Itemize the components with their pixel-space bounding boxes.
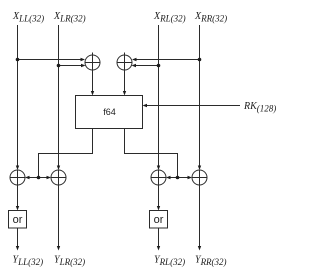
arrowhead into or-box right [157,206,160,211]
wire junction to XOR3 [29,177,39,179]
XOR gate X6 lower far-right [192,170,207,185]
arrowhead into XOR1 lower [81,64,86,67]
svg-text:XRR(32): XRR(32) [194,11,227,24]
wire XOR5 to or-box right [158,185,160,207]
XOR gate X5 lower mid-right [151,170,166,185]
wire RK input [147,105,241,107]
svg-text:YRL(32): YRL(32) [154,255,185,268]
svg-text:XLR(32): XLR(32) [53,11,86,24]
wire f64 left output routing [39,129,93,178]
svg-text:or: or [154,214,164,226]
svg-text:YRR(32): YRR(32) [195,255,227,268]
wire lower-right horizontal (X_RL to XOR2) [136,65,159,67]
arrowhead XOR1 into f64 [91,91,94,96]
wire XOR4 to output [58,185,60,247]
wire f64 right output routing [125,129,178,178]
wire lower-left horizontal (X_LR to XOR1) [59,65,82,67]
arrowhead into XOR3 right [25,176,30,179]
arrowhead into XOR5 right [166,176,171,179]
arrowhead output Y_LR [57,246,60,251]
arrowhead XOR2 into f64 [123,91,126,96]
svg-text:XRL(32): XRL(32) [153,11,186,24]
wire X_LR vertical line [58,25,60,166]
svg-text:YLR(32): YLR(32) [54,255,85,268]
arrowhead into XOR2 upper [132,58,137,61]
svg-text:XLL(32): XLL(32) [12,11,44,24]
arrowhead RK into f64 [143,104,148,107]
wire XOR1 to f64 [92,70,94,92]
wire junction to XOR6 [178,177,189,179]
arrowhead into XOR2 lower [132,64,137,67]
wire X_RL vertical line [158,25,160,166]
arrowhead into XOR6 left [188,176,193,179]
arrowhead into XOR5 top [157,166,160,171]
wire X_LL vertical line [17,25,19,166]
XOR gate X2 top-right [117,53,132,71]
svg-text:RK(128): RK(128) [243,101,276,114]
arrowhead into XOR4 top [57,166,60,171]
block or left [9,211,27,229]
junction dot right output split [176,176,180,180]
arrowhead output Y_LL [16,246,19,251]
XOR gate X3 lower far-left [10,170,25,185]
arrowhead output Y_RL [157,246,160,251]
block f64 [76,96,143,129]
arrowhead into XOR4 left [47,176,52,179]
arrowhead into XOR6 top [198,166,201,171]
wire X_RR vertical line [199,25,201,166]
svg-text:YLL(32): YLL(32) [13,255,44,268]
arrowhead output Y_RR [198,246,201,251]
XOR gate X4 lower mid-left [51,170,66,185]
svg-text:or: or [13,214,23,226]
svg-text:f64: f64 [103,107,116,117]
block or right [150,211,168,229]
arrowhead into XOR3 top [16,166,19,171]
junction dot left output split [37,176,41,180]
junction dot on X_RL [157,64,161,68]
wire junction to XOR4 [39,177,48,179]
junction dot on X_RR [198,58,202,62]
wire junction to XOR5 [170,177,178,179]
arrowhead into or-box left [16,206,19,211]
wire XOR6 to output [199,185,201,247]
XOR gate X1 top-left [85,53,100,71]
wire upper-left horizontal (X_LL to XOR1) [18,59,82,61]
arrowhead into XOR1 upper [81,58,86,61]
junction dot on X_LR [57,64,61,68]
wire or-box right to output [158,228,160,247]
wire upper-right horizontal (X_RR to XOR2) [136,59,200,61]
wire or-box left to output [17,228,19,247]
wire XOR2 to f64 [124,70,126,92]
wire XOR3 to or-box left [17,185,19,207]
junction dot on X_LL [16,58,20,62]
